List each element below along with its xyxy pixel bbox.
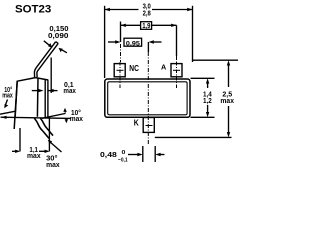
- extension line right x=192.5: [192, 6, 194, 62]
- leader for left 10°: [4, 100, 8, 109]
- dim 2,5 max: [227, 60, 230, 137]
- dim 1,9: [121, 24, 177, 27]
- body inner: [108, 82, 187, 115]
- right-side lead (vertical double line): [45, 80, 48, 118]
- svg-text:max: max: [220, 98, 234, 105]
- K lead inner centerline tick: [146, 125, 153, 127]
- K centerline upper: [147, 42, 149, 52]
- boxed label 0,95: [124, 38, 142, 46]
- bottom lead S-curve with 30° foot: [34, 118, 53, 138]
- extension NC centerline upper: [120, 22, 122, 43]
- svg-text:0,48: 0,48: [100, 150, 117, 159]
- upper lead (diagonal, double line, S-bend landing on body top): [34, 42, 58, 78]
- up arrow: [63, 108, 67, 113]
- svg-text:K: K: [134, 119, 139, 128]
- svg-text:0,150: 0,150: [49, 26, 68, 33]
- extension A centerline upper: [176, 25, 178, 56]
- svg-text:1,9: 1,9: [142, 23, 150, 30]
- boxed label 1,9: [141, 22, 152, 30]
- right 10° angle (foot plane): [42, 113, 66, 118]
- svg-text:1,2: 1,2: [203, 98, 212, 105]
- left 10° angle line: [0, 111, 16, 114]
- svg-text:0,090: 0,090: [48, 33, 69, 40]
- svg-text:A: A: [161, 62, 166, 71]
- seating plane line: [1, 116, 72, 119]
- svg-text:0: 0: [122, 150, 126, 156]
- svg-text:SOT23: SOT23: [15, 4, 51, 16]
- svg-text:max: max: [46, 160, 60, 169]
- svg-text:max: max: [70, 116, 83, 123]
- NC centerline through lead: [119, 62, 121, 88]
- body outer (top view): [105, 79, 190, 117]
- leader arrow lower (points up-left at lead): [59, 48, 67, 53]
- 2,5 extension lines: [193, 59, 239, 61]
- dim 1,4 / 1,2 extension lines: [191, 77, 215, 79]
- svg-text:max: max: [27, 153, 41, 160]
- left extension for 1,1: [19, 128, 21, 152]
- svg-text:2,8: 2,8: [143, 10, 151, 17]
- lead A: [171, 64, 182, 77]
- extension line from upper lead tip plane: [50, 58, 52, 94]
- svg-text:0,95: 0,95: [126, 40, 140, 47]
- svg-text:−0,1: −0,1: [118, 158, 128, 164]
- A centerline through lead: [176, 62, 178, 88]
- A lead inner centerline tick: [173, 69, 180, 71]
- lead NC: [114, 64, 125, 77]
- NC lead inner centerline tick: [117, 69, 124, 71]
- dim 3,0 / 2,8: [105, 8, 193, 11]
- lead K: [143, 118, 154, 133]
- dim 0,95: [108, 40, 162, 43]
- 30° leader: [48, 140, 62, 152]
- down arrow: [65, 119, 69, 124]
- 1,1 max dimension: [12, 150, 50, 153]
- leader arrow upper (points down-right at lead): [44, 41, 53, 48]
- K centerline through body and lead: [147, 52, 149, 144]
- svg-text:max: max: [2, 92, 13, 99]
- svg-text:max: max: [63, 88, 76, 95]
- body (side view): [14, 78, 48, 129]
- 0,1 max dimension: [32, 89, 58, 92]
- dim 0,48 arrows: [128, 153, 165, 156]
- dim 1,4 / 1,2: [206, 78, 209, 117]
- extension line left x=104.6: [104, 6, 106, 78]
- right extension for 1,1 (lead edge extended): [48, 118, 50, 152]
- svg-text:NC: NC: [129, 63, 139, 73]
- 0,48 extension lines: [142, 146, 144, 162]
